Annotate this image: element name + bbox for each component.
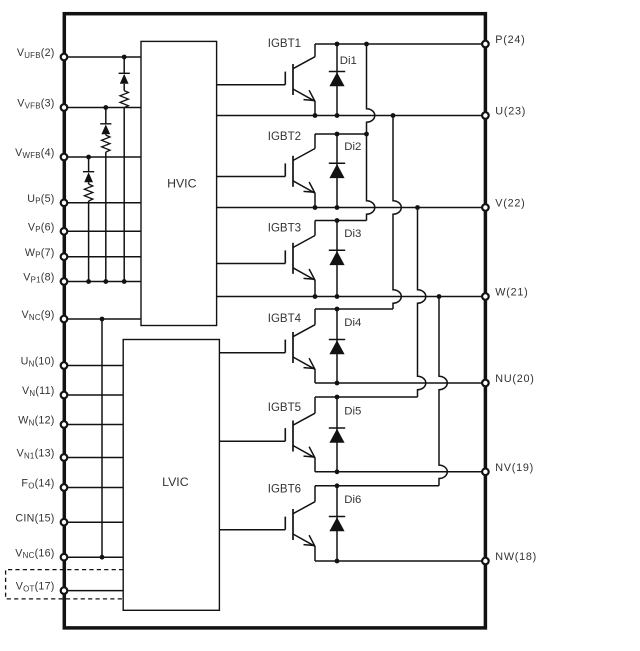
pin 17 terminal: [61, 587, 68, 594]
wire DB1 return to VP1 line: [123, 108, 125, 282]
diode Di3: [329, 221, 345, 297]
wire pin 8: [64, 281, 141, 283]
svg-text:VP1(8): VP1(8): [23, 272, 54, 285]
node Di3 cathode junction: [335, 218, 340, 223]
wire gate IGBT1: [217, 84, 286, 86]
pin 10 terminal: [61, 362, 68, 369]
svg-text:VNC(16): VNC(16): [15, 547, 54, 560]
svg-text:WN(12): WN(12): [18, 415, 54, 428]
svg-text:VN(11): VN(11): [22, 385, 55, 398]
svg-text:IGBT5: IGBT5: [268, 402, 301, 414]
svg-text:CIN(15): CIN(15): [15, 512, 54, 524]
wire DB3 return to VP1 line: [88, 201, 90, 282]
node DB3 bottom junction on VP1: [86, 279, 91, 284]
pin W(21) terminal: [482, 293, 489, 300]
wire V phase rail: [217, 207, 486, 209]
bootstrap resistor RB3: [84, 184, 92, 201]
svg-text:U(23): U(23): [495, 106, 526, 118]
wire pin 4: [64, 156, 141, 158]
pin 5 terminal: [61, 200, 68, 207]
diode Di2: [329, 134, 345, 208]
IC U1 HVIC gate-driver block: [141, 41, 217, 325]
bootstrap resistor RB2: [102, 135, 110, 152]
transistor IGBT4: [285, 309, 315, 383]
pin 13 terminal: [61, 454, 68, 461]
transistor IGBT6: [285, 486, 315, 561]
wire IGBT3 collector rail: [315, 220, 367, 222]
dashed optional-function box around VOT(17): [6, 570, 124, 599]
svg-text:V(22): V(22): [495, 198, 525, 210]
bootstrap diode DB1: [123, 57, 125, 73]
svg-text:VN1(13): VN1(13): [17, 448, 55, 461]
svg-text:UP(5): UP(5): [27, 193, 54, 206]
wire gate IGBT4: [219, 352, 285, 354]
diode Di6: [329, 486, 345, 561]
wire gate IGBT5: [219, 440, 285, 442]
node Di1 anode junction: [335, 113, 340, 118]
node Di4 anode junction: [335, 381, 340, 386]
wire pin 9: [64, 318, 141, 320]
svg-text:P(24): P(24): [495, 34, 525, 46]
wire pin 3: [64, 107, 141, 109]
diode Di4: [329, 309, 345, 383]
pin 3 terminal: [61, 104, 68, 111]
svg-text:VUFB(2): VUFB(2): [17, 47, 55, 60]
node Di4 cathode junction: [335, 307, 340, 312]
wire IGBT2 collector rail: [315, 133, 367, 135]
svg-text:NW(18): NW(18): [495, 551, 537, 563]
node DB1 bottom junction on VP1: [122, 279, 127, 284]
wire pin 6: [64, 230, 141, 232]
svg-text:Di6: Di6: [344, 494, 361, 506]
svg-text:Di4: Di4: [344, 317, 361, 329]
pin 4 terminal: [61, 154, 68, 161]
bootstrap resistor RB1: [120, 91, 128, 108]
wire U phase rail: [217, 115, 486, 117]
wire IGBT6 collector rail: [315, 485, 439, 487]
wire pin 15: [64, 521, 123, 523]
wire gate IGBT2: [217, 176, 286, 178]
node VNC(9) junction: [100, 317, 105, 322]
diode Di5: [329, 397, 345, 472]
svg-text:WP(7): WP(7): [25, 247, 55, 260]
svg-text:IGBT1: IGBT1: [268, 38, 301, 50]
pin 7 terminal: [61, 253, 68, 260]
svg-text:W(21): W(21): [495, 287, 528, 299]
svg-text:HVIC: HVIC: [167, 177, 196, 191]
wire pin 11: [64, 394, 123, 396]
svg-text:IGBT2: IGBT2: [268, 131, 301, 143]
IC U2 LVIC gate-driver block: [123, 340, 219, 611]
node V rail junction: [415, 205, 420, 210]
pin 6 terminal: [61, 228, 68, 235]
node IGBT2 collector junction: [364, 132, 369, 137]
svg-text:FO(14): FO(14): [21, 478, 54, 491]
pin 16 terminal: [61, 554, 68, 561]
svg-text:IGBT3: IGBT3: [268, 223, 301, 235]
pin 2 terminal: [61, 54, 68, 61]
wire P rail (IGBT1 collector to P pin): [315, 43, 485, 45]
package outline border: [64, 14, 485, 628]
node Di6 cathode junction: [335, 483, 340, 488]
transistor IGBT2: [285, 134, 315, 208]
wire P to IGBT2/IGBT3 collectors (vertical): [367, 44, 375, 221]
node IGBT3 emitter junction: [313, 294, 318, 299]
pin V(22) terminal: [482, 204, 489, 211]
pin P(24) terminal: [482, 41, 489, 48]
wire pin 12: [64, 424, 123, 426]
pin NV(19) terminal: [482, 469, 489, 476]
wire DB2 return to VP1 line: [105, 152, 107, 281]
node IGBT1 emitter junction: [313, 113, 318, 118]
node Di2 anode junction: [335, 205, 340, 210]
svg-text:Di1: Di1: [340, 55, 357, 67]
node P rail junction: [364, 42, 369, 47]
wire pin 5: [64, 202, 141, 204]
bootstrap diode DB2: [105, 108, 107, 124]
wire IGBT5 collector rail: [315, 396, 418, 398]
node VNC(16) junction: [100, 555, 105, 560]
node W rail junction: [437, 294, 442, 299]
svg-text:Di2: Di2: [344, 141, 361, 153]
svg-text:VWFB(4): VWFB(4): [15, 147, 54, 160]
pin 9 terminal: [61, 316, 68, 323]
node Di2 cathode junction: [335, 132, 340, 137]
wire W to IGBT6 collector (vertical): [439, 297, 447, 486]
pin NW(18) terminal: [482, 558, 489, 565]
svg-text:VVFB(3): VVFB(3): [17, 98, 54, 111]
svg-text:LVIC: LVIC: [162, 475, 189, 489]
wire pin 16: [64, 556, 123, 558]
wire NU rail: [315, 382, 485, 384]
wire pin 2: [64, 56, 141, 58]
svg-text:VP(6): VP(6): [28, 221, 55, 234]
node Di3 anode junction: [335, 294, 340, 299]
node U rail junction: [391, 113, 396, 118]
wire gate IGBT3: [217, 263, 286, 265]
wire pin 17: [64, 590, 123, 592]
wire pin 7: [64, 256, 141, 258]
pin 8 terminal: [61, 278, 68, 285]
pin U(23) terminal: [482, 112, 489, 119]
pin 15 terminal: [61, 519, 68, 526]
wire pin 10: [64, 365, 123, 367]
svg-text:VNC(9): VNC(9): [21, 309, 54, 322]
node Di6 anode junction: [335, 559, 340, 564]
transistor IGBT5: [285, 397, 315, 472]
wire NW rail: [315, 560, 485, 562]
pin 12 terminal: [61, 421, 68, 428]
wire pin 13: [64, 457, 123, 459]
node DB3 top junction: [86, 155, 91, 160]
wire gate IGBT6: [219, 529, 285, 531]
wire U to IGBT4 collector (vertical): [393, 116, 401, 310]
svg-text:IGBT4: IGBT4: [268, 313, 302, 325]
svg-text:NV(19): NV(19): [495, 462, 534, 474]
node IGBT2 emitter junction: [313, 205, 318, 210]
node DB2 bottom junction on VP1: [103, 279, 108, 284]
svg-text:Di5: Di5: [344, 406, 361, 418]
pin 11 terminal: [61, 392, 68, 399]
wire NV rail: [315, 471, 485, 473]
diode Di1: [329, 44, 345, 116]
wire W phase rail: [217, 296, 486, 298]
svg-text:NU(20): NU(20): [495, 373, 534, 385]
svg-text:VOT(17): VOT(17): [16, 581, 55, 594]
wire pin 14: [64, 487, 123, 489]
bootstrap diode DB3: [88, 157, 90, 172]
pin 14 terminal: [61, 484, 68, 491]
pin NU(20) terminal: [482, 380, 489, 387]
wire V to IGBT5 collector (vertical): [418, 208, 426, 398]
svg-text:IGBT6: IGBT6: [268, 484, 301, 496]
wire VNC(9)-VNC(16) tie: [101, 319, 103, 557]
transistor IGBT3: [285, 221, 315, 297]
transistor IGBT1: [285, 44, 315, 116]
node Di1 cathode junction: [335, 42, 340, 47]
svg-text:UN(10): UN(10): [21, 356, 55, 369]
node Di5 cathode junction: [335, 395, 340, 400]
node DB2 top junction: [103, 105, 108, 110]
svg-text:Di3: Di3: [344, 228, 361, 240]
node Di5 anode junction: [335, 469, 340, 474]
wire IGBT4 collector rail: [315, 308, 393, 310]
node DB1 top junction: [122, 55, 127, 60]
